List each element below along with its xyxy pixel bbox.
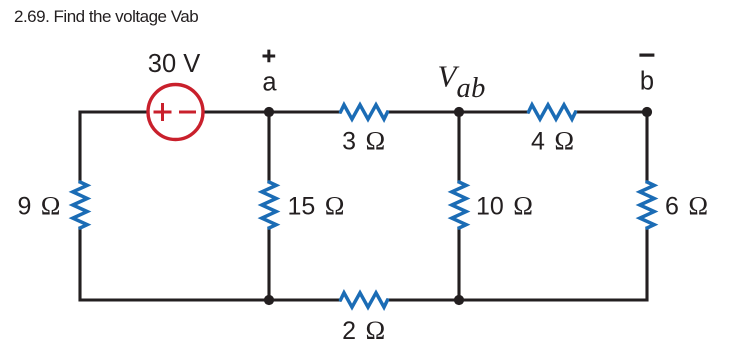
wire top segment from 4-ohm to node b [574,110,649,113]
wire bottom segment from 2-ohm to node b [386,298,649,301]
svg-text:4 Ω: 4 Ω [531,126,574,156]
node b minus polarity mark [639,53,654,56]
voltage source value label 30 V [148,50,200,78]
wire left vertical upper segment [78,111,81,184]
node a junction dot top [264,107,274,117]
title text [14,7,198,26]
wire bottom-left horizontal segment [79,298,343,301]
svg-text:3 Ω: 3 Ω [342,126,385,156]
junction dot bottom below node Vab [454,295,464,305]
wire node b vertical upper segment [645,112,648,184]
resistor R5 15 ohm zigzag [262,182,276,228]
wire node Vab vertical lower segment [457,227,460,301]
svg-text:30 V: 30 V [148,50,200,78]
svg-text:15 Ω: 15 Ω [288,191,345,221]
node b label [640,68,654,96]
resistor R1 value label 3 ohm [342,126,385,156]
wire node b vertical lower segment [645,227,648,302]
svg-text:Vab: Vab [438,59,486,105]
voltage source minus sign [179,111,196,114]
node Vab junction dot top [454,107,464,117]
resistor R7 6 ohm zigzag [640,182,654,228]
wire top segment from 3-ohm to 4-ohm [386,110,530,113]
wire top-left horizontal segment [80,110,149,113]
svg-text:b: b [640,68,654,96]
resistor R1 3 ohm zigzag [341,105,388,119]
resistor R3 2 ohm zigzag [341,293,388,307]
svg-text:10 Ω: 10 Ω [476,191,533,221]
resistor R3 value label 2 ohm [342,315,385,345]
resistor R4 9 ohm zigzag [73,182,87,228]
wire node Vab vertical upper segment [457,112,460,184]
wire top segment from source to 3-ohm [203,110,343,113]
node b junction dot [642,107,652,117]
node a plus polarity mark [263,50,276,63]
svg-text:2 Ω: 2 Ω [342,315,385,345]
voltage source VS1 30 V circle [148,85,203,140]
resistor R2 4 ohm zigzag [529,105,576,119]
resistor R4 value label 9 ohm [17,191,60,221]
svg-text:6 Ω: 6 Ω [665,191,708,221]
wire left vertical lower segment [78,227,81,302]
resistor R2 value label 4 ohm [531,126,574,156]
resistor R7 value label 6 ohm [665,191,708,221]
resistor R5 value label 15 ohm [288,191,345,221]
svg-text:a: a [262,69,277,97]
wire node a vertical lower segment [267,227,270,301]
wire node a vertical upper segment [267,112,270,184]
resistor R6 value label 10 ohm [476,191,533,221]
resistor R6 10 ohm zigzag [452,182,466,228]
svg-text:2.69. Find the voltage Vab: 2.69. Find the voltage Vab [14,7,198,26]
junction dot bottom below node a [264,295,274,305]
node Vab voltage label [438,59,486,105]
voltage source plus sign [154,103,172,121]
node a label [262,69,277,97]
svg-text:9 Ω: 9 Ω [17,191,60,221]
